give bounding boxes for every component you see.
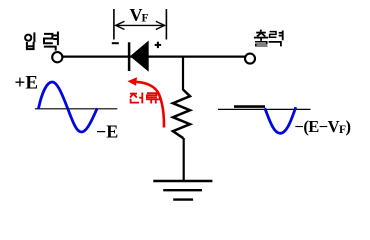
VF measurement right bar xyxy=(165,9,167,40)
resistor R1 zigzag xyxy=(173,90,190,139)
diode D1 cathode bar xyxy=(128,42,131,71)
wire resistor to ground xyxy=(183,138,185,181)
VF measurement left bar xyxy=(113,9,115,40)
red current arrowhead xyxy=(128,77,138,86)
output clipped zero segment (thick) xyxy=(234,105,265,108)
ground symbol xyxy=(153,181,212,200)
minus sign (anode side marker) xyxy=(112,42,119,44)
input waveform axis xyxy=(35,108,117,110)
output waveform axis xyxy=(218,108,311,110)
label 출력 (output) xyxy=(254,30,283,47)
wire resistor branch vertical xyxy=(182,57,184,90)
label 입력 (input) xyxy=(25,32,58,51)
svg-text:−E: −E xyxy=(96,121,118,141)
output negative half-wave (blue) xyxy=(265,107,296,133)
diode D1 triangle xyxy=(130,41,149,72)
label 전류 (current, red) xyxy=(130,93,160,104)
svg-text:+E: +E xyxy=(15,73,39,94)
red current arrow xyxy=(137,82,165,128)
plus sign (cathode side marker) xyxy=(155,42,161,48)
VF double-headed arrow xyxy=(115,21,165,29)
input terminal circle xyxy=(52,52,62,62)
input sine wave (blue) xyxy=(38,82,97,132)
svg-text:F: F xyxy=(142,13,149,25)
wire main horizontal from input terminal to output terminal xyxy=(63,55,246,57)
output terminal circle xyxy=(245,54,255,64)
